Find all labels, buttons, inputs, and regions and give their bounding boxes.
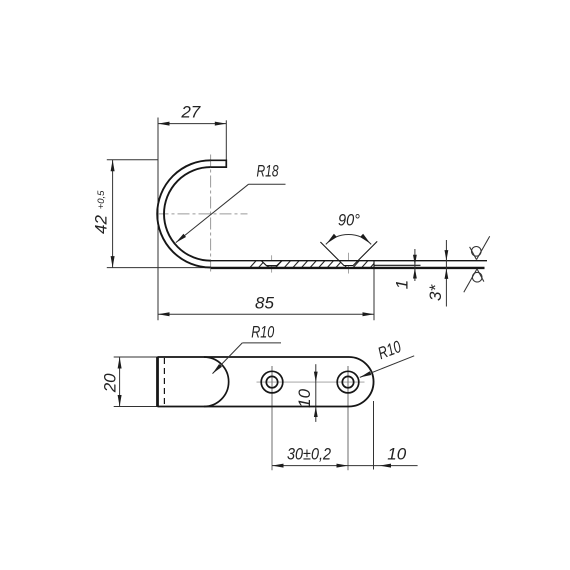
svg-text:R18: R18 — [257, 162, 279, 181]
svg-text:1: 1 — [393, 280, 412, 289]
svg-text:20: 20 — [101, 373, 120, 393]
svg-text:3*: 3* — [426, 283, 445, 300]
svg-text:10: 10 — [295, 388, 314, 407]
svg-text:42: 42 — [92, 215, 111, 234]
svg-text:90°: 90° — [338, 210, 360, 229]
svg-text:R10: R10 — [251, 322, 274, 341]
svg-text:27: 27 — [180, 102, 200, 121]
svg-text:10: 10 — [387, 444, 406, 463]
svg-text:+0,5: +0,5 — [96, 190, 107, 209]
svg-text:30±0,2: 30±0,2 — [287, 445, 331, 464]
svg-text:85: 85 — [255, 293, 274, 312]
